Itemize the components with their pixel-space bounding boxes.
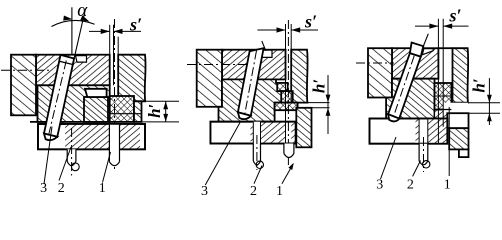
diagram 2: h-prime arrow up [326, 108, 331, 116]
diagram 1: cross-hatched wear plate [110, 96, 134, 122]
diagram 1: white gap notch [85, 89, 107, 97]
diagram 1: angle arc [52, 20, 95, 26]
diagram 3: h-prime arrow up [487, 113, 492, 121]
diagram 3: left block [368, 48, 392, 97]
svg-text:3: 3 [40, 181, 47, 196]
diagram 1: h-prime ext line bottom [142, 121, 180, 123]
diagram 3: bottom plate hatch sliver [416, 119, 420, 144]
diagram 1: angle pin tip chamfer line [44, 134, 56, 137]
diagram 2: core pin 1 round end [284, 154, 294, 158]
diagram 1: core pin 2 left side [66, 149, 68, 161]
svg-text:2: 2 [407, 178, 414, 193]
svg-text:α: α [77, 0, 88, 21]
diagram 2: parting centerline [187, 64, 247, 66]
diagram 3: angle pin tip chamfer line [388, 114, 399, 118]
diagram 3: h-prime ext line bottom [469, 112, 501, 114]
diagram 2: cross-hatch step a [277, 83, 288, 91]
diagram 2: s-prime ext line b [290, 24, 292, 103]
diagram 1: arc arrow left [63, 16, 72, 21]
diagram 1: s-prime dim line right [114, 30, 142, 32]
diagram 3: core pin 2 left side [418, 144, 420, 161]
diagram 1: s-prime arrow right [114, 29, 123, 34]
svg-text:2: 2 [58, 181, 65, 196]
diagram 1: s-prime ext line b [113, 25, 115, 86]
diagram 1: vertical reference line [71, 7, 73, 54]
diagram 3: pin head pocket [422, 49, 433, 55]
diagram 2: pin head pocket [260, 50, 272, 57]
diagram 1: right block (broken-out edge) [118, 55, 145, 102]
diagram 1: core pin 1 round end [109, 162, 119, 166]
diagram 1: pin 2 centerline [71, 128, 73, 176]
svg-text:h′: h′ [145, 104, 164, 118]
diagram 3: angle pin 3 body [388, 53, 421, 119]
diagram 3: slide block [386, 79, 434, 119]
diagram 1: slide bottom edge [30, 121, 64, 123]
diagram 2: core pin 2 left side [252, 144, 254, 162]
diagram 2: bottom plate hatch left [261, 122, 286, 144]
diagram 1: left wedge block [11, 55, 36, 116]
diagram 2: core pin 1 left side [283, 144, 285, 154]
diagram 2: core pin 2 right side [260, 144, 262, 162]
svg-text:1: 1 [444, 178, 451, 193]
diagram 1: fixed plate (top clamping plate) [36, 55, 110, 86]
diagram 1: s-prime ext line a [109, 25, 111, 126]
svg-text:1: 1 [99, 181, 106, 196]
diagram 1: leader to pin 1 [103, 152, 111, 183]
diagram 2: pin 1 centerline [287, 20, 289, 168]
diagram 1: s-prime arrow left [101, 29, 110, 34]
diagram 2: stop block column [296, 108, 311, 148]
diagram 2: bottom plate outline [210, 122, 295, 144]
diagram 2: core pin 1 body [284, 144, 294, 158]
diagram 3: s-prime ext line a [437, 19, 439, 144]
diagram 3: right lower hatch block [449, 128, 468, 149]
svg-text:1: 1 [276, 184, 283, 199]
diagram 1: angle pin 3 body [44, 55, 74, 137]
diagram 2: leader to pin 3 [205, 123, 240, 186]
diagram 2: h-prime ext line top [291, 102, 329, 104]
svg-text:h′: h′ [470, 78, 489, 92]
diagram 2: h-prime dim line [327, 75, 329, 134]
diagram 1: pin 1 edge line [117, 37, 119, 96]
diagram 3: fixed plate [392, 48, 438, 78]
diagram 3: h-prime arrow down [487, 95, 492, 103]
diagram 1: leader to pin 2 [59, 147, 71, 181]
diagram 2: core pin 2 round end [253, 161, 260, 165]
diagram 1: core insert in slide [84, 97, 108, 122]
diagram 3: parting centerline [356, 62, 394, 64]
diagram 3: s-prime arrow right [443, 24, 452, 29]
diagram 1: core pin 2 right side [75, 149, 77, 161]
diagram 1: bottom plate hatch left [65, 124, 109, 149]
svg-text:s′: s′ [129, 15, 142, 35]
diagram 2: leader to pin 1 [282, 164, 293, 184]
diagram 2: core pin 2 ball curl [256, 161, 263, 168]
diagram 3: step line [435, 109, 452, 111]
svg-text:s′: s′ [448, 6, 461, 26]
diagram 2: cross-hatch row [275, 103, 298, 111]
diagram 3: s-prime dim line left [415, 25, 438, 27]
diagram 3: leader to pin 2 [413, 161, 421, 177]
diagram 2: core pin 1 right side [293, 144, 295, 154]
diagram 2: angle pin 3 body [238, 48, 264, 116]
diagram 3: s-prime arrow left [429, 24, 438, 29]
diagram 3: right foot [459, 149, 469, 157]
diagram 1: angle pin top face line [60, 61, 74, 64]
diagram 3: pin 2 slot left [418, 119, 420, 144]
diagram 3: angle pin head [410, 43, 423, 57]
diagram 1: leader to pin 3 [44, 127, 52, 185]
diagram 1: bottom plate hatch right [120, 124, 141, 149]
diagram 1: parting centerline [1, 69, 50, 71]
diagram 1: pin head pocket [76, 56, 87, 63]
diagram 3: leader to pin 1 (vertical) [448, 107, 450, 176]
diagram 2: core pin 2 slot left [252, 122, 254, 144]
diagram 2: bottom plate [210, 122, 295, 144]
diagram 2: s-prime dim line right [291, 29, 318, 31]
diagram 2: s-prime arrow right [291, 27, 300, 32]
diagram 2: core pin 2 body [253, 144, 260, 165]
diagram 1: bottom plate outline [38, 124, 145, 149]
diagram 2: s-prime arrow left [277, 27, 286, 32]
diagram 2: angle pin axis centerline [245, 51, 257, 115]
diagram 1: h-prime arrow up [163, 101, 168, 109]
diagram 1: pin edge extension line [74, 9, 85, 59]
diagram 1: core pin 2 round end [67, 162, 76, 166]
diagram 1: core pin 1 body [109, 125, 119, 166]
diagram 2: fixed plate [222, 50, 286, 80]
diagram 2: angle pin tip [238, 112, 251, 119]
diagram 2: bottom plate hatch right [291, 122, 295, 144]
svg-text:h′: h′ [310, 79, 329, 93]
diagram 1: angle pin tip [44, 134, 57, 141]
diagram 3: cross-hatch mid line [435, 95, 452, 97]
diagram 3: s-prime dim line right [443, 25, 468, 27]
diagram 1: core pin 2 ball curl [71, 163, 79, 171]
diagram 3: s-prime ext line b [442, 19, 444, 127]
diagram 1: step line [110, 113, 142, 115]
diagram 1: arc arrow right [80, 15, 89, 21]
diagram 2: right block (broken-out edge) [291, 50, 307, 103]
diagram 3: pin 2 slot right [427, 119, 429, 144]
diagram 3: plate step hatch [435, 110, 448, 119]
diagram 3: cross-hatch wear blocks [435, 83, 452, 110]
diagram 3: angle pin axis centerline [394, 56, 415, 117]
diagram 2: h-prime arrow down [326, 95, 331, 103]
diagram 3: angle pin axis extension [423, 34, 428, 46]
diagram 3: leader to pin 3 [381, 137, 397, 179]
diagram 1: s-prime dim line left [89, 30, 110, 32]
diagram 2: core pin 2 slot [253, 122, 260, 144]
diagram 1: core pin 2 body [67, 149, 76, 165]
diagram 1: slide block [38, 85, 110, 122]
diagram 3: bottom plate hatch [428, 119, 448, 144]
diagram 1: bottom plate [38, 124, 145, 149]
diagram 1: angle pin axis centerline [48, 61, 67, 139]
diagram 1: core pin 1 left side [108, 125, 110, 162]
diagram 3: h-prime ext line top [468, 102, 500, 104]
diagram 2: leader arrow pin 1 [288, 163, 293, 170]
diagram 1: pin 1 centerline [114, 19, 116, 172]
diagram 1: core pin 1 right side [119, 125, 121, 162]
diagram 2: angle pin tip chamfer line [238, 113, 250, 116]
svg-text:3: 3 [376, 178, 383, 193]
diagram 3: core pin 2 body [419, 144, 428, 165]
diagram 2: s-prime dim line left [257, 29, 285, 31]
diagram 3: core pin 2 round end [419, 161, 428, 165]
diagram 3: bottom plate outline [370, 119, 448, 144]
diagram 2: leader to pin 2 [254, 166, 262, 184]
diagram 3: top edge line [438, 47, 452, 49]
diagram 2: s-prime ext line a [285, 24, 287, 144]
diagram 3: core pin 2 right side [427, 144, 429, 161]
svg-text:2: 2 [250, 184, 257, 199]
diagram 2: core pin 2 slot right [260, 122, 262, 144]
diagram 3: core pin 2 ball curl [423, 161, 430, 168]
diagram 2: angle pin axis extension [262, 41, 266, 51]
diagram 3: right lower band [447, 113, 468, 128]
diagram 2: slide block [219, 79, 288, 121]
diagram 2: left block [197, 50, 222, 107]
diagram 3: pin 2 centerline [423, 137, 425, 172]
diagram 1: h-prime dim line [165, 101, 167, 122]
diagram 2: bottom plate hatch sliver [251, 122, 254, 144]
diagram 2: cross-hatch step b [281, 91, 293, 103]
diagram 3: plate step left edge [434, 110, 436, 119]
diagram 1: h-prime arrow down [163, 114, 168, 122]
diagram 3: right block (broken-out edge) [453, 48, 469, 102]
diagram 1: right lower remnant [134, 101, 142, 122]
diagram 2: h-prime ext line bottom [296, 107, 329, 109]
diagram 3: bottom plate [370, 119, 448, 144]
diagram 3: right step piece [443, 103, 468, 114]
diagram 2: pin 2 centerline [256, 135, 258, 170]
diagram 3: h-prime dim line [488, 78, 490, 125]
diagram 3: angle pin tip [388, 114, 399, 121]
svg-text:s′: s′ [304, 12, 317, 32]
diagram 1: h-prime ext line top [145, 100, 179, 102]
svg-text:3: 3 [201, 184, 208, 199]
